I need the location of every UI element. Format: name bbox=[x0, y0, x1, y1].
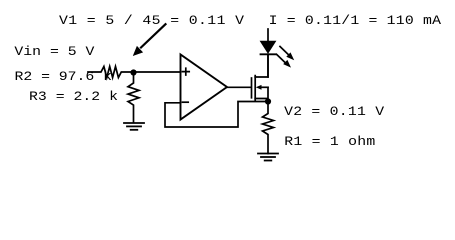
wire node A to op-amp + input bbox=[134, 71, 181, 73]
transistor Q1 source lead bbox=[255, 87, 268, 101]
LED emission arrow 2 bbox=[277, 54, 286, 63]
op-amp + sign bbox=[183, 68, 190, 75]
ground below R1 bbox=[258, 154, 278, 161]
LED D1 cathode bar bbox=[261, 53, 276, 55]
svg-text:R3 = 2.2 k: R3 = 2.2 k bbox=[29, 89, 118, 104]
svg-text:V2 = 0.11 V: V2 = 0.11 V bbox=[284, 104, 385, 119]
LED D1 triangle bbox=[261, 41, 276, 53]
transistor Q1 drain lead bbox=[255, 54, 268, 77]
transistor Q1 channel bar bbox=[254, 76, 256, 101]
svg-text:I = 0.11/1 = 110 mA: I = 0.11/1 = 110 mA bbox=[269, 14, 442, 29]
transistor Q1 gate bar bbox=[251, 78, 253, 98]
resistor R3 bbox=[128, 75, 139, 123]
wire LED cathode to drain bbox=[267, 54, 269, 77]
node A junction dot bbox=[130, 69, 136, 75]
feedback wire loop bbox=[165, 102, 268, 128]
resistor R1 bbox=[263, 102, 274, 154]
wire op-amp output to gate bbox=[227, 86, 251, 88]
annotation arrow to node A bbox=[141, 24, 166, 47]
LED emission arrow 1 bbox=[280, 47, 289, 56]
svg-text:Vin = 5 V: Vin = 5 V bbox=[14, 44, 95, 59]
op-amp U1 bbox=[181, 55, 228, 120]
svg-text:V1 = 5 / 45 = 0.11 V: V1 = 5 / 45 = 0.11 V bbox=[59, 14, 245, 29]
svg-text:R1 = 1 ohm: R1 = 1 ohm bbox=[284, 134, 375, 149]
op-amp - sign bbox=[183, 101, 189, 103]
ground below R3 bbox=[124, 123, 144, 130]
transistor Q1 body arrow bbox=[261, 86, 268, 88]
node B junction dot bbox=[265, 98, 271, 104]
resistor R2 bbox=[88, 67, 134, 78]
LED D1 anode wire bbox=[267, 29, 269, 41]
